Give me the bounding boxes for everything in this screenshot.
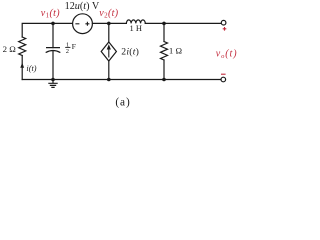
terminal: positive output (open circle)	[221, 20, 226, 25]
svg-text:2: 2	[66, 48, 69, 55]
svg-text:i(t): i(t)	[26, 64, 36, 73]
wire: inductor to node A (top of 1 ohm)	[145, 22, 164, 24]
svg-text:F: F	[72, 42, 77, 51]
voltage source VS 12u(t) V (circle)	[73, 14, 93, 34]
wire: capacitor branch upper (node v1 to top plate)	[52, 23, 54, 47]
wire: bottom rail (ground node to negative terminal)	[53, 79, 221, 81]
label: output polarity plus	[223, 27, 227, 31]
svg-text:1 H: 1 H	[130, 23, 143, 33]
junction ground node (dot)	[51, 78, 55, 82]
wire: capacitor branch lower (bottom plate to ground node)	[52, 51, 54, 80]
svg-text:1 Ω: 1 Ω	[169, 46, 183, 56]
resistor R2 1 ohm (zigzag)	[161, 42, 168, 61]
svg-text:12u(t) V: 12u(t) V	[65, 1, 100, 12]
inductor L1 1 H (coil)	[126, 20, 145, 24]
arrow inside dependent source (pointing up)	[107, 44, 111, 57]
wire: node A to positive output terminal	[164, 22, 221, 24]
svg-text:v1(t): v1(t)	[41, 8, 60, 20]
wire: top rail left segment (left corner to node v1)	[22, 23, 53, 37]
label: output polarity minus	[221, 73, 226, 75]
dependent current source 2i(t) (diamond)	[101, 42, 116, 61]
svg-text:vo(t): vo(t)	[216, 48, 238, 60]
wire: 1 ohm branch upper	[163, 23, 165, 41]
wire: below R1 with current arrow i(t)	[21, 56, 23, 80]
svg-text:2 Ω: 2 Ω	[3, 44, 17, 54]
svg-text:v2(t): v2(t)	[99, 8, 118, 20]
wire: node v2 to inductor L1	[109, 22, 127, 24]
junction node v1 (dot)	[51, 22, 55, 26]
svg-text:2i(t): 2i(t)	[121, 46, 139, 57]
ground symbol	[49, 80, 57, 88]
wire: dependent source branch lower (diamond to bottom node)	[108, 61, 110, 80]
wire: bottom rail left segment (left corner to ground node)	[22, 79, 53, 81]
wire: dependent source branch upper (node v2 down to diamond)	[108, 23, 110, 42]
wire: node v1 to voltage source	[53, 22, 73, 24]
svg-text:(a): (a)	[115, 96, 130, 108]
label: capacitor value 1/2 F	[65, 42, 76, 56]
plus sign inside voltage source	[85, 22, 89, 26]
resistor R1 2 ohm (zigzag, left branch)	[19, 37, 26, 56]
junction node v2 (dot)	[107, 22, 111, 26]
junction bottom of dependent source (dot)	[107, 78, 111, 82]
junction bottom of 1 ohm (dot)	[162, 78, 166, 82]
wire: voltage source to node v2	[92, 22, 108, 24]
current arrow i(t) on left branch	[20, 63, 24, 68]
minus sign inside voltage source	[75, 23, 79, 25]
terminal: negative output (open circle)	[221, 77, 226, 82]
capacitor C1 1/2 F (plates)	[46, 48, 60, 53]
junction node A top of 1 ohm (dot)	[162, 22, 166, 26]
wire: 1 ohm branch lower	[163, 60, 165, 80]
